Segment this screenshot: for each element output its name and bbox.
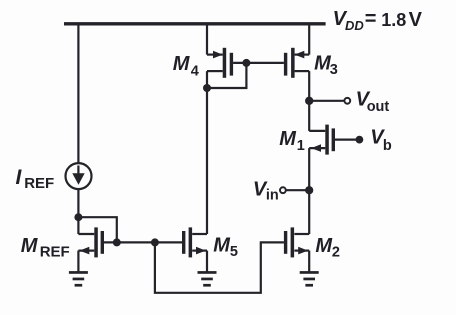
svg-text:V: V <box>409 9 423 31</box>
svg-text:4: 4 <box>191 64 199 80</box>
svg-text:3: 3 <box>330 62 338 78</box>
svg-text:out: out <box>367 99 390 115</box>
svg-text:DD: DD <box>345 18 364 33</box>
svg-text:M: M <box>173 53 191 75</box>
svg-text:b: b <box>383 138 392 154</box>
svg-text:I: I <box>16 166 23 189</box>
svg-text:5: 5 <box>230 244 238 260</box>
svg-text:1.8: 1.8 <box>381 10 406 30</box>
svg-text:2: 2 <box>332 245 340 261</box>
svg-text:REF: REF <box>24 175 54 192</box>
svg-text:M: M <box>279 128 297 150</box>
svg-text:M: M <box>21 235 39 257</box>
svg-text:M: M <box>213 235 231 257</box>
svg-text:REF: REF <box>40 244 70 261</box>
svg-text:M: M <box>315 235 333 257</box>
svg-text:=: = <box>365 8 377 30</box>
svg-text:1: 1 <box>297 138 305 154</box>
svg-text:in: in <box>266 188 279 204</box>
